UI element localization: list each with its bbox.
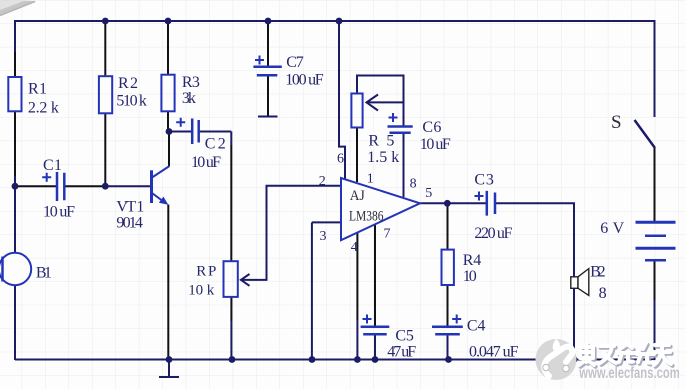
- svg-text:C 3: C 3: [474, 172, 494, 189]
- svg-text:2.2 k: 2.2 k: [28, 100, 59, 117]
- svg-text:1: 1: [367, 172, 374, 187]
- svg-text:B1: B1: [36, 264, 52, 281]
- svg-text:R 5: R 5: [368, 132, 394, 149]
- svg-text:10 uF: 10 uF: [43, 204, 75, 221]
- svg-text:8: 8: [599, 285, 607, 302]
- svg-text:C 1: C 1: [43, 157, 62, 174]
- svg-text:S: S: [611, 112, 622, 133]
- svg-text:AJ: AJ: [350, 188, 365, 204]
- svg-text:100 uF: 100 uF: [285, 72, 324, 89]
- svg-text:C 5: C 5: [395, 327, 414, 344]
- svg-text:0.047 uF: 0.047 uF: [469, 344, 519, 361]
- svg-text:7: 7: [384, 227, 391, 242]
- svg-text:3: 3: [320, 229, 327, 244]
- svg-text:4: 4: [351, 240, 358, 255]
- svg-text:C 6: C 6: [422, 119, 441, 136]
- svg-text:VT 1: VT 1: [116, 199, 144, 216]
- svg-text:5: 5: [425, 186, 432, 201]
- svg-text:6: 6: [337, 152, 344, 167]
- svg-text:C 7: C 7: [286, 54, 304, 71]
- svg-text:3 k: 3 k: [182, 90, 196, 107]
- svg-text:R 4: R 4: [463, 252, 482, 269]
- svg-text:2: 2: [319, 174, 326, 189]
- svg-text:R 1: R 1: [28, 81, 47, 98]
- svg-text:R 3: R 3: [182, 74, 200, 91]
- svg-text:1.5 k: 1.5 k: [367, 149, 399, 166]
- svg-text:10 k: 10 k: [188, 283, 215, 299]
- svg-text:510 k: 510 k: [116, 93, 146, 110]
- svg-text:6 V: 6 V: [600, 220, 624, 237]
- svg-text:R 2: R 2: [118, 75, 138, 92]
- svg-text:R P: R P: [196, 263, 216, 279]
- svg-text:8: 8: [410, 176, 417, 191]
- svg-text:B2: B2: [590, 264, 606, 281]
- svg-text:www.elecfans.com: www.elecfans.com: [579, 365, 680, 382]
- svg-text:9014: 9014: [116, 215, 142, 232]
- svg-text:10 uF: 10 uF: [420, 136, 451, 153]
- svg-text:C 2: C 2: [205, 136, 226, 153]
- svg-text:10 uF: 10 uF: [191, 154, 221, 171]
- svg-text:C 4: C 4: [467, 317, 486, 334]
- svg-text:10: 10: [463, 268, 477, 285]
- svg-text:220 uF: 220 uF: [474, 225, 512, 242]
- svg-text:LM386: LM386: [349, 209, 384, 225]
- svg-text:47 uF: 47 uF: [387, 344, 416, 361]
